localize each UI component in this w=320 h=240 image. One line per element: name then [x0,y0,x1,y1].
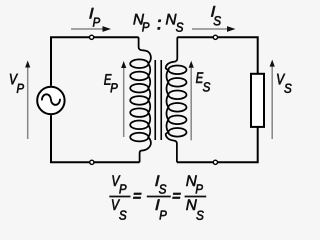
label Np : Ns [133,14,183,32]
resistor load [251,74,264,127]
arrow Es [190,66,192,140]
AC source circle [37,87,64,114]
arrow Vp [27,66,29,139]
core line 2 [160,60,162,140]
equation fraction Vp/Vs [112,175,126,193]
wire top-left [51,37,139,86]
label Vp [10,74,24,93]
node terminal 3 [90,160,94,164]
label Es [196,72,210,91]
equals sign 1 [133,193,141,199]
node terminal 2 [213,35,217,39]
wire bottom-left [51,115,140,162]
equation fraction Is/Ip [155,175,166,193]
wire bottom-right [177,127,258,162]
node terminal 1 [90,35,94,39]
core line 1 [154,60,156,140]
equals sign 2 [172,193,180,199]
equation fraction Np/Ns [186,175,203,193]
wire top-right [177,37,257,74]
arrow Ep [123,67,125,138]
arrow Ip [71,28,104,30]
arrow Vs [271,65,273,139]
label Ep [104,74,118,92]
ratio colon [158,20,161,30]
node terminal 4 [213,160,217,164]
label Vs [277,74,291,93]
arrow Is [192,28,229,30]
secondary coil winding [166,37,187,162]
label Is [211,6,221,25]
sine wave [42,94,60,104]
label Ip [89,8,100,27]
primary coil winding [130,37,151,162]
